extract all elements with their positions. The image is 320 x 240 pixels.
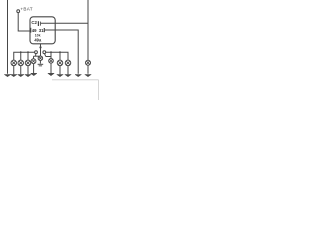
lamp L1 [11, 60, 17, 66]
ground G9 (lamp RB) [48, 73, 54, 75]
wire right contact tail [45, 54, 46, 57]
lamp C (control lamp) [86, 60, 91, 65]
ground G11 (lamp R3) [65, 75, 71, 77]
flasher relay box U1 [30, 17, 55, 44]
wire lamp L3 to ground [27, 66, 29, 75]
wire control lamp to ground [87, 65, 89, 74]
ground G4 (pilot lamp) [38, 64, 44, 67]
pilot lamp P [38, 56, 43, 61]
lamp L2 [18, 60, 24, 66]
wire right arc segment [46, 56, 51, 58]
contact bars C2 inside U1 [37, 21, 39, 26]
ground G6 (lamp L2) [18, 75, 24, 77]
node left bus 1 [20, 51, 22, 53]
switch S1 lever [40, 47, 42, 56]
wire lamp L2 to ground [20, 66, 22, 75]
node left bus 2 [27, 51, 29, 53]
node 49a junction [39, 46, 41, 48]
ground G7 (lamp L3) [25, 75, 31, 77]
ground G1 (left rail) [4, 75, 10, 77]
ground G2 (terminal 31) [75, 75, 81, 77]
wire left arc segment [34, 55, 41, 57]
switch contact right [43, 51, 46, 54]
svg-text:+BAT: +BAT [20, 6, 32, 11]
wire lamp L1 to ground [13, 66, 15, 75]
svg-text:C2: C2 [31, 20, 37, 25]
wire C2 lead to right rail [41, 22, 88, 24]
lamp R2 [57, 60, 63, 66]
wire drop lamp L2 [20, 52, 22, 60]
wire drop lamp L3 [27, 52, 29, 60]
lamps row [11, 59, 71, 66]
wire left contact tail [35, 54, 37, 57]
switch contact left [35, 51, 38, 54]
pin bar 49 [30, 28, 32, 33]
wire from +BAT to pin 49 [18, 13, 30, 31]
terminal +BAT [17, 10, 20, 13]
wire right rail [87, 0, 89, 60]
wire lamp LB to ground [33, 64, 35, 74]
pin bar 31 [43, 28, 45, 32]
wire lamp R2 to ground [59, 66, 61, 75]
wire drop branch lamp RB [50, 52, 52, 58]
ground G8 (lamp LB) [31, 73, 37, 75]
ground G5 (lamp L1) [11, 75, 17, 77]
pin 49a lead [40, 44, 42, 48]
lamp RB (right branch) [49, 59, 54, 64]
svg-text:49: 49 [32, 28, 37, 33]
wire lamp R3 to ground [67, 66, 69, 75]
svg-text:31: 31 [39, 28, 44, 33]
wire drop lamp R2 [59, 52, 61, 60]
ground G10 (lamp R2) [57, 75, 63, 77]
lamp LB (left branch) [31, 59, 36, 64]
wire pilot lamp to ground [39, 60, 41, 63]
page rule faint vertical [98, 80, 100, 100]
wire drop branch lamp LB [33, 56, 35, 59]
lamp R3 [65, 60, 71, 66]
lamp L3 [25, 60, 31, 66]
node right bus RB [50, 51, 52, 53]
wire right bus [46, 52, 68, 60]
ground G3 (control lamp) [85, 75, 91, 77]
page rule faint horizontal [52, 79, 99, 81]
wire left rail [7, 0, 9, 74]
wire lamp RB to ground [50, 63, 52, 73]
wire left bus [14, 52, 35, 60]
svg-text:49a: 49a [34, 37, 42, 42]
wire 31 lead to ground drop [45, 30, 78, 74]
node right bus 1 [59, 51, 61, 53]
